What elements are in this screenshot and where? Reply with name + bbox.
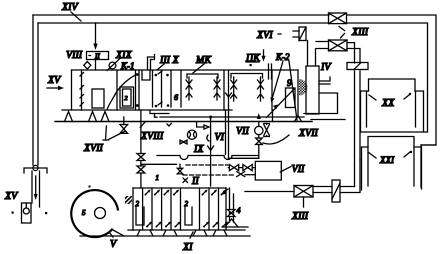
svg-text:II: II	[191, 176, 199, 187]
box 2 outer	[120, 87, 134, 108]
fabric diagonal out of chamber	[267, 89, 295, 118]
festoon arrows column B1	[231, 77, 237, 101]
support triangle right	[295, 116, 302, 122]
label V pointer	[109, 232, 113, 237]
outlet box	[286, 88, 296, 108]
small arrow right of divider	[226, 93, 232, 97]
machine I ground line	[55, 121, 312, 123]
valve on pipe 4	[228, 210, 236, 217]
arrow XV inlet	[47, 87, 60, 89]
machine I bottom edge	[62, 109, 232, 111]
chamber XX top	[369, 79, 416, 91]
pipe 4 foot	[222, 219, 248, 227]
left frame funnel bracket	[24, 168, 47, 173]
component IV column	[306, 66, 319, 114]
svg-text:1: 1	[156, 174, 160, 182]
svg-text:XV: XV	[47, 75, 62, 86]
XI mid arrows	[146, 226, 148, 228]
hourglass valve 2 on drain	[137, 166, 145, 173]
valve XIII (top)	[329, 13, 347, 24]
wire: inner top pipe lower line	[38, 23, 428, 132]
ground line bottom	[80, 235, 250, 237]
wire: pipe down into VIII with arrow	[95, 23, 97, 47]
label XVIII pointer dash	[140, 122, 145, 128]
arrow in left pipe	[35, 176, 37, 197]
dot right	[45, 212, 47, 214]
component VIII box	[87, 52, 109, 60]
fabric guide with ticks	[80, 70, 84, 110]
machine XI body verticals	[143, 188, 219, 230]
connector line between XX and XXI	[361, 131, 428, 133]
arrow between PK and K-2	[263, 50, 265, 57]
roller dots	[136, 73, 139, 76]
hourglass valve 1 on drain	[137, 154, 145, 161]
valve diamond below VIII	[84, 62, 91, 70]
label MK pointer	[193, 64, 204, 73]
outer pipe joins XXI	[421, 144, 436, 146]
svg-text:VI: VI	[215, 132, 225, 143]
damper XVI stubs	[293, 31, 299, 37]
vertical damper box	[332, 180, 340, 202]
bowtie on L3	[237, 172, 245, 177]
line L3 dashed	[183, 174, 234, 176]
svg-text:XVI: XVI	[256, 30, 273, 41]
machine I right wall piece	[272, 110, 274, 122]
svg-text:XIV: XIV	[61, 2, 79, 13]
left down pipe pair	[32, 171, 40, 207]
wire: outer top pipe XIV upper line	[33, 15, 436, 187]
chamber right wall	[271, 70, 273, 110]
svg-text:V: V	[110, 239, 118, 250]
fabric S-curve	[107, 75, 136, 109]
fan V inner circle	[95, 208, 106, 219]
label XVII pointer	[103, 126, 125, 140]
XI top arrows	[145, 194, 147, 196]
label III pointer	[157, 64, 164, 70]
box in machine section 1	[92, 89, 104, 108]
chamber XXI top	[368, 137, 414, 148]
pipe 4 double vertical	[230, 188, 234, 222]
svg-text:XVIII: XVIII	[140, 131, 164, 142]
svg-text:XIX: XIX	[115, 50, 132, 61]
chamber XXI right step	[414, 147, 422, 189]
bowtie A	[229, 165, 238, 171]
hourglass beside gauge	[264, 124, 270, 137]
stub with check arrow	[197, 122, 204, 127]
chamber XX left step	[361, 91, 369, 132]
IV right bracket	[319, 77, 330, 84]
label XI pointer	[190, 232, 193, 238]
svg-text:IX: IX	[193, 144, 204, 155]
wire: valve2 left stubs	[316, 42, 329, 49]
festoon arrows column A2	[214, 77, 220, 100]
valve XIII (second)	[329, 40, 348, 51]
pipe tower on machine top	[148, 55, 155, 71]
PK pipe pair	[269, 64, 272, 79]
small apparatus box	[22, 203, 32, 223]
festoon arrows column A1	[186, 77, 192, 100]
fan V outlet	[112, 230, 124, 237]
section III small arrows	[158, 71, 162, 105]
twin bowtie line	[228, 167, 255, 169]
small bowtie below L3	[183, 178, 188, 183]
chamber MK left wall	[180, 70, 182, 107]
svg-text:XIII: XIII	[291, 211, 309, 222]
chamber divider wall	[223, 71, 225, 110]
machine XI bottom	[128, 229, 245, 231]
svg-text:XIII: XIII	[351, 27, 369, 38]
roller pair lines	[136, 70, 140, 110]
machine XI top segments	[133, 187, 226, 189]
svg-text:XVII: XVII	[298, 128, 319, 139]
wire: long pipe to XIII3	[245, 191, 294, 193]
small arrow at pipe4 top	[223, 189, 228, 193]
machine XI left wall	[132, 188, 134, 230]
svg-text:XVII: XVII	[83, 143, 104, 154]
support triangle 2	[89, 112, 97, 122]
svg-text:2: 2	[136, 200, 140, 208]
svg-text:XXI: XXI	[379, 155, 395, 165]
label XX pointers	[369, 95, 409, 100]
svg-text:VIII: VIII	[66, 50, 83, 61]
svg-text:9: 9	[287, 78, 292, 88]
bottom right pipe lower	[340, 160, 360, 193]
chamber MK-B left wall	[228, 71, 230, 110]
chamber XX right step	[415, 91, 424, 132]
IV pedestal	[304, 93, 345, 120]
label PK underline and dot	[246, 61, 259, 63]
sub box below tower	[142, 70, 150, 80]
pipe from XIII3 to damper	[313, 187, 332, 193]
duct damper box (hatched)	[347, 63, 368, 70]
label XXI pointers	[368, 152, 410, 158]
right duct pair down	[355, 71, 361, 187]
chevron on pipe	[208, 146, 214, 151]
junction dot on bottom line	[209, 116, 212, 119]
bottom right pipe upper	[340, 186, 355, 188]
section III verticals	[153, 71, 172, 107]
pointer diagonal 2	[289, 61, 297, 120]
IV risers	[308, 41, 316, 67]
damper XVI box	[299, 27, 306, 41]
valve XIII (third)	[294, 186, 313, 208]
support triangle 3	[101, 112, 109, 122]
svg-text:5: 5	[82, 209, 86, 217]
label XIX pointer with circle	[109, 62, 116, 69]
machine I top edge	[72, 69, 299, 71]
svg-text:6: 6	[174, 93, 178, 102]
svg-text:XI: XI	[182, 242, 193, 253]
chamber MK-A top line with hooks	[187, 74, 218, 78]
bowtie B	[243, 165, 252, 171]
check mark	[167, 123, 171, 126]
svg-text:VII: VII	[236, 126, 249, 137]
wire: pipe below VIII into machine	[95, 60, 97, 71]
compartment U 1	[136, 207, 144, 225]
wire: valve2 right to down duct	[347, 43, 360, 63]
svg-text:XX: XX	[381, 98, 395, 109]
machine I lower bottom edge	[160, 116, 304, 118]
svg-text:III X: III X	[159, 55, 179, 66]
XI feet	[137, 230, 227, 236]
svg-text:XV: XV	[4, 191, 19, 202]
label VII (box) pointer	[280, 167, 291, 173]
stray dot	[89, 186, 91, 188]
gauge bowtie	[256, 138, 263, 145]
pointer curve to XVII right	[263, 135, 289, 144]
pipe II double vertical	[226, 110, 229, 158]
section III dots	[155, 74, 158, 77]
fan V outer circle	[71, 190, 118, 237]
divider	[116, 70, 118, 110]
component VII box	[255, 161, 281, 180]
crosshatched roller	[299, 79, 307, 96]
machine XI right wall	[225, 188, 227, 230]
wire: left frame verticals	[33, 15, 38, 165]
box 2 inner	[123, 89, 132, 106]
drain valve under machine	[123, 117, 125, 125]
svg-text:IV: IV	[320, 62, 332, 73]
machine I left wall	[71, 70, 73, 110]
label K-2 pointer diagonal 1	[272, 61, 283, 99]
gauge VII assembly	[258, 122, 260, 127]
svg-text:2: 2	[185, 200, 189, 208]
machine right wall	[297, 70, 299, 117]
line L2 dashed	[186, 164, 228, 166]
compartment U 2	[185, 207, 192, 225]
label XIV pointer	[71, 12, 81, 21]
machine I step bracket under right section	[150, 110, 169, 117]
dot left	[12, 212, 14, 214]
svg-text:2: 2	[125, 96, 128, 102]
svg-text:4: 4	[237, 206, 241, 215]
festoon arrows column B2	[258, 77, 264, 101]
vertical pipe from machine to XI	[210, 117, 212, 186]
drain line x=141	[140, 110, 142, 188]
support triangle 1	[65, 112, 73, 122]
pump VI circle	[187, 130, 196, 139]
chamber MK-B top line with hooks	[231, 74, 263, 79]
chamber XXI left step	[362, 147, 369, 190]
label XIII (top) pointer	[339, 27, 345, 39]
hatched connector box	[125, 196, 132, 204]
hourglass valve on L2	[179, 164, 181, 168]
line L1 with hops	[157, 156, 259, 160]
line L2 solid part	[141, 163, 177, 165]
pump VI bowtie	[180, 140, 187, 144]
svg-text:VII: VII	[292, 164, 305, 175]
